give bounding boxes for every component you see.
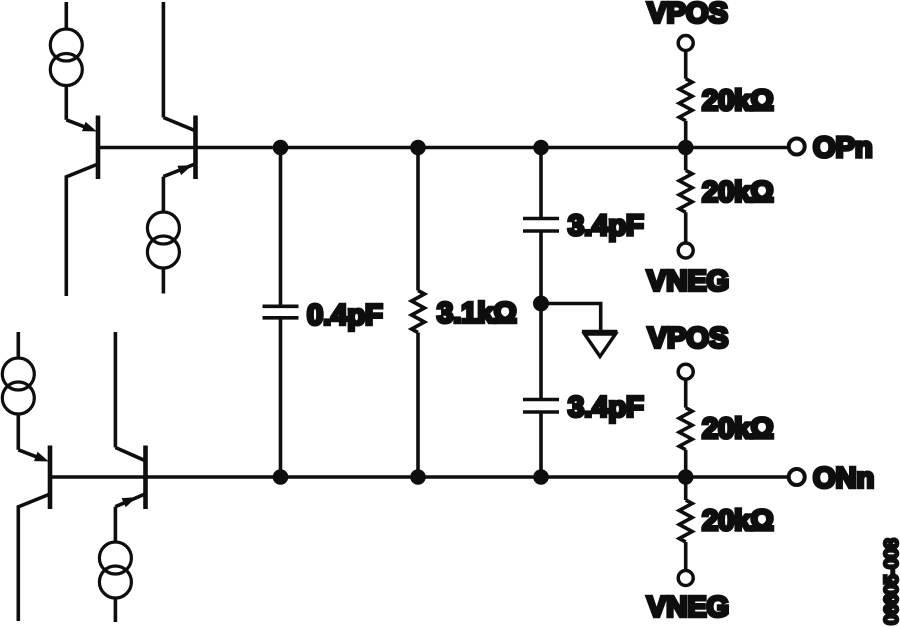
terminal VNEG top [678, 243, 693, 258]
capacitor C2 3.4pF top [523, 148, 559, 304]
resistor R3 20k [679, 379, 692, 477]
transistor Q3 [18, 446, 50, 622]
node B [410, 140, 426, 156]
ground [582, 332, 618, 357]
current source I2 [147, 212, 179, 294]
capacitor C3 3.4pF bottom [523, 304, 559, 478]
transistor Q2 [163, 2, 195, 212]
transistor Q1 [66, 116, 98, 297]
svg-text:0.4pF: 0.4pF [307, 300, 383, 332]
node H [678, 469, 694, 485]
wire OPn rail [98, 146, 787, 150]
svg-text:VNEG: VNEG [647, 265, 729, 297]
svg-text:OPn: OPn [813, 132, 873, 164]
node A [273, 140, 289, 156]
node C [533, 140, 549, 156]
svg-text:3.4pF: 3.4pF [568, 391, 644, 423]
svg-text:20kΩ: 20kΩ [702, 85, 774, 117]
svg-text:VNEG: VNEG [647, 591, 729, 623]
svg-text:VPOS: VPOS [647, 0, 728, 30]
transistor Q4 [115, 332, 145, 542]
wire ONn rail [50, 475, 787, 479]
node D [678, 140, 694, 156]
svg-text:20kΩ: 20kΩ [702, 176, 774, 208]
svg-text:3.1kΩ: 3.1kΩ [437, 297, 517, 329]
capacitor C1 0.4pF [263, 148, 299, 478]
terminal VNEG bottom [678, 571, 693, 586]
wire to ground [541, 304, 601, 332]
terminal ONn [789, 469, 805, 485]
svg-text:3.4pF: 3.4pF [568, 210, 644, 242]
resistor R4 20k [679, 477, 692, 571]
current source I1 [50, 2, 82, 120]
svg-text:20kΩ: 20kΩ [702, 413, 774, 445]
terminal OPn [789, 139, 805, 155]
resistor R5 3.1k [412, 148, 425, 478]
resistor R1 20k [679, 51, 692, 148]
node G [533, 469, 549, 485]
terminal VPOS top [678, 36, 693, 51]
svg-text:VPOS: VPOS [648, 323, 729, 355]
node mid junction [533, 296, 549, 312]
resistor R2 20k [679, 148, 692, 244]
current source I4 [99, 542, 131, 622]
svg-text:06605-008: 06605-008 [882, 538, 900, 624]
node E [273, 469, 289, 485]
svg-text:20kΩ: 20kΩ [702, 505, 774, 537]
current source I3 [2, 332, 34, 450]
node F [410, 469, 426, 485]
terminal VPOS bottom [678, 364, 693, 379]
svg-text:ONn: ONn [813, 462, 874, 494]
